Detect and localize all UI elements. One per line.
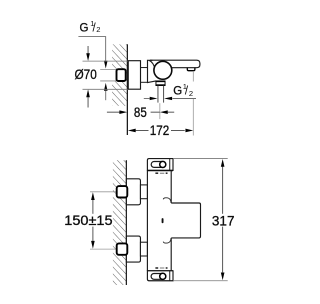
stadium handle bottom — [151, 274, 164, 280]
dimension 85 middle segment — [151, 111, 160, 113]
leader line G1/2 top — [78, 37, 105, 61]
dimension 85 right tail — [167, 111, 174, 113]
scale marks above bottom cap — [155, 267, 158, 269]
S-union block bottom — [126, 236, 140, 262]
arrow up to union bottom — [104, 83, 108, 91]
body bottom cap — [147, 271, 173, 281]
extension line 317 top — [173, 157, 228, 159]
svg-text:150±15: 150±15 — [64, 213, 112, 228]
svg-text:2: 2 — [96, 25, 100, 34]
body block (top view) — [148, 60, 156, 82]
arrow Ø70 top — [86, 53, 90, 61]
scale marks below top cap — [155, 172, 158, 174]
shower hose pipe lines — [157, 86, 159, 103]
arrow 150 top — [91, 192, 95, 200]
svg-text:G: G — [173, 85, 182, 97]
knob circle (thermostat handle) — [154, 61, 172, 79]
svg-text:317: 317 — [212, 213, 235, 228]
wall hatch (bottom view) — [113, 160, 127, 285]
cap strip divider bottom — [169, 271, 171, 281]
arrow Ø70 bottom — [86, 89, 90, 97]
dimension 317 line upper — [222, 166, 224, 214]
dimension 172 line right — [171, 129, 185, 131]
arrow to hose pipe right — [164, 97, 172, 100]
svg-text:85: 85 — [134, 105, 147, 120]
aerator under spout — [187, 68, 195, 71]
wall hatch (top view) — [112, 44, 127, 106]
dimension Ø70 extension bottom — [83, 88, 129, 90]
neck top union — [140, 185, 147, 199]
dark dash on body — [162, 218, 164, 223]
body column right edge lower — [170, 238, 172, 271]
dimension 172 line left — [135, 129, 148, 131]
svg-text:2: 2 — [189, 89, 193, 98]
arrow to hose pipe left — [150, 97, 158, 100]
S-union block top — [126, 179, 140, 205]
body top cap — [147, 159, 173, 171]
cap strip divider top — [169, 159, 171, 171]
hook curve top — [163, 198, 171, 203]
body cap arc — [149, 61, 155, 70]
wall face line (bottom view) — [125, 160, 127, 285]
extension line 317 bottom — [173, 280, 228, 282]
pipe bore through wall (white) — [100, 70, 116, 81]
arrow 317 bottom — [221, 273, 225, 281]
arrow 150 bottom — [91, 241, 95, 249]
collar below knob — [156, 81, 165, 85]
body column right edge upper — [170, 170, 172, 203]
arrow 85 at wall — [119, 110, 127, 114]
body column left edge — [146, 170, 148, 270]
ring circle top — [160, 161, 166, 167]
dimension 150±15 line upper — [92, 199, 94, 214]
dimension Ø70 extension top — [83, 60, 129, 62]
svg-text:G: G — [80, 22, 89, 34]
extension line for 172 dim (aerator) — [192, 71, 194, 82]
arrow 172 left — [128, 129, 136, 133]
arrow G1/2 down to union — [104, 61, 108, 69]
arrow 85 at hose axis — [160, 110, 168, 114]
dimension 317 line lower — [222, 227, 224, 273]
neck between escutcheon and body — [141, 67, 148, 69]
escutcheon (top view) — [128, 61, 140, 89]
stadium handle top — [151, 162, 164, 168]
svg-text:172: 172 — [150, 123, 170, 138]
supply pipe lines (top view) — [100, 68, 116, 70]
underline leader of middle G1/2 — [172, 97, 196, 99]
leader tail below union — [105, 91, 107, 101]
arrow 317 top — [221, 159, 225, 167]
hook curve bottom — [163, 238, 171, 243]
dimension 150±15 line lower — [92, 227, 94, 242]
union nut in wall (top view) — [117, 69, 126, 81]
tail of left hose arrow — [144, 97, 150, 99]
union nut top (bottom view) — [117, 186, 128, 197]
separator line bottom — [147, 270, 173, 272]
dimension 85 left tail — [107, 111, 120, 113]
union nut bottom (bottom view) — [117, 243, 128, 254]
dimension Ø70 line bottom — [87, 97, 89, 108]
center line bottom union — [90, 248, 126, 250]
extension line for 85 dim — [159, 103, 161, 119]
svg-text:Ø70: Ø70 — [75, 67, 97, 82]
separator line top — [147, 169, 173, 171]
protruding block (mixer outlet) — [171, 203, 200, 238]
neck bottom union — [140, 242, 147, 256]
spout outline — [150, 60, 200, 68]
dimension Ø70 line top — [87, 46, 89, 54]
center line top union — [90, 191, 126, 193]
wall face line (top view) — [126, 44, 128, 135]
ring circle bottom — [160, 273, 166, 279]
arrow 172 right — [185, 129, 193, 133]
